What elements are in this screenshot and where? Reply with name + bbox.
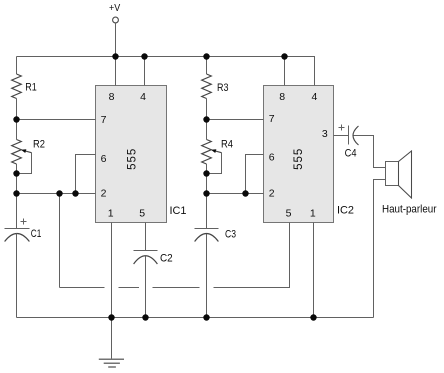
speaker LS1 Haut-parleur bbox=[382, 151, 437, 216]
svg-text:6: 6 bbox=[101, 153, 107, 165]
svg-text:8: 8 bbox=[109, 91, 115, 103]
wire : top supply rail with corner to IC2 pin 4 bbox=[17, 57, 315, 86]
svg-text:C1: C1 bbox=[31, 228, 42, 240]
wire : left rail R2 to C1 bbox=[16, 164, 18, 228]
node : top rail / R3 bbox=[203, 53, 209, 59]
wire : C3 down to ground rail bbox=[206, 234, 208, 318]
wire : ground rail bbox=[17, 317, 374, 319]
wire : control line segment 1 bbox=[60, 287, 105, 289]
capacitor C1 bbox=[5, 219, 42, 242]
wire : rail R4 to C3 bbox=[206, 164, 208, 228]
wire : R2 wiper return bbox=[17, 153, 32, 174]
wire : left rail R1 to R2 bbox=[16, 99, 18, 140]
svg-text:1: 1 bbox=[108, 207, 114, 219]
resistor R2 (potentiometer) bbox=[12, 139, 45, 165]
svg-text:8: 8 bbox=[279, 91, 285, 103]
capacitor C3 bbox=[195, 229, 237, 242]
wire : IC1 pin 5 to C2 bbox=[145, 223, 147, 251]
R4 wiper arrow bbox=[211, 149, 222, 153]
wire : C2 down to ground rail bbox=[145, 256, 147, 318]
node : ground rail / pin1 bbox=[108, 314, 114, 320]
node : rail / pin7 IC2 bbox=[203, 116, 209, 122]
wire : IC2 pin 2 line bbox=[207, 193, 264, 195]
node : rail / pin2 IC2 bbox=[203, 190, 209, 196]
capacitor C2 bbox=[134, 251, 173, 265]
svg-text:IC1: IC1 bbox=[170, 205, 187, 217]
capacitor C4 bbox=[339, 125, 359, 160]
svg-text:C2: C2 bbox=[160, 253, 173, 265]
wire : R4 wiper return bbox=[207, 153, 222, 174]
wire : control line segment 4 up to IC2 pin 5 bbox=[214, 223, 290, 288]
wire : control line segment 3 bbox=[153, 287, 200, 289]
node : left rail / pin2 bbox=[13, 190, 19, 196]
node : pin2 / pin6 link bbox=[72, 190, 78, 196]
resistor R1 bbox=[12, 74, 37, 99]
svg-text:5: 5 bbox=[286, 207, 292, 219]
svg-text:3: 3 bbox=[322, 128, 328, 140]
svg-text:4: 4 bbox=[311, 91, 317, 103]
wire : IC1 pin2 node down to control line bbox=[59, 194, 61, 288]
node : ground rail / C2 bbox=[142, 314, 148, 320]
node : top rail / IC2 pin8 bbox=[281, 53, 287, 59]
node : pin2 / feedback drop bbox=[56, 190, 62, 196]
node : R2 bottom junction bbox=[13, 170, 19, 176]
svg-text:R1: R1 bbox=[25, 82, 37, 94]
wire : IC2 pin 1 down bbox=[313, 223, 315, 318]
resistor R4 (potentiometer) bbox=[202, 139, 233, 165]
svg-text:7: 7 bbox=[101, 114, 107, 126]
node : top rail / +V bbox=[112, 53, 118, 59]
svg-text:+V: +V bbox=[109, 2, 120, 14]
wire : ground rail corner up to speaker bbox=[374, 180, 386, 318]
R2 wiper arrow bbox=[21, 149, 32, 153]
svg-text:Haut-parleur: Haut-parleur bbox=[382, 204, 437, 216]
node : ground rail / IC2 pin1 bbox=[310, 314, 316, 320]
wire : control line segment 2 bbox=[119, 287, 140, 289]
wire : second rail top bbox=[206, 57, 208, 75]
svg-text:5: 5 bbox=[139, 207, 145, 219]
svg-text:7: 7 bbox=[269, 113, 275, 125]
IC IC1 (555 timer) body bbox=[96, 86, 167, 223]
node : ground rail / C3 bbox=[203, 314, 209, 320]
+V supply terminal bbox=[109, 2, 120, 23]
wire : C4 to speaker top terminal bbox=[354, 136, 386, 168]
node : junction left rail / pin7 bbox=[13, 116, 19, 122]
wire : left rail top bbox=[16, 57, 18, 75]
wire : IC1 pin 1 down bbox=[111, 223, 113, 318]
svg-text:C4: C4 bbox=[345, 147, 357, 159]
wire : IC2 pin 3 to C4 bbox=[334, 135, 349, 137]
wire : left rail C1 down to ground rail bbox=[16, 234, 18, 318]
svg-text:555: 555 bbox=[127, 148, 139, 170]
svg-text:555: 555 bbox=[293, 148, 305, 170]
svg-text:2: 2 bbox=[269, 187, 275, 199]
svg-text:IC2: IC2 bbox=[337, 204, 354, 216]
IC IC2 (555 timer) body bbox=[264, 86, 334, 223]
ground bbox=[99, 318, 124, 368]
svg-text:1: 1 bbox=[310, 207, 316, 219]
wire : IC1 pin 4 bbox=[144, 57, 146, 86]
node : pin2 / pin6 link IC2 bbox=[242, 190, 248, 196]
IC1 label 555 bbox=[127, 148, 139, 170]
svg-text:C3: C3 bbox=[225, 229, 236, 241]
svg-text:R3: R3 bbox=[217, 82, 229, 94]
wire : IC1 pin 7 line bbox=[17, 119, 96, 121]
wire : IC2 pin 6 route bbox=[246, 155, 264, 194]
svg-text:R4: R4 bbox=[221, 139, 233, 151]
svg-text:2: 2 bbox=[101, 187, 107, 199]
node : R4 bottom junction bbox=[203, 170, 209, 176]
resistor R3 bbox=[202, 74, 229, 99]
svg-text:R2: R2 bbox=[33, 139, 45, 151]
wire : +V down to IC1 pin 8 bbox=[115, 23, 117, 86]
IC2 label 555 bbox=[293, 148, 305, 170]
svg-text:6: 6 bbox=[269, 152, 275, 164]
wire : IC2 pin 8 bbox=[284, 57, 286, 86]
svg-text:4: 4 bbox=[140, 91, 146, 103]
wire : IC2 pin 7 line bbox=[207, 119, 264, 121]
wire : IC1 pin 6 route bbox=[76, 155, 96, 194]
wire : IC1 pin 2 line bbox=[17, 193, 96, 195]
wire : rail R3 to R4 bbox=[206, 99, 208, 140]
node : top rail / IC1 pin4 bbox=[141, 53, 147, 59]
